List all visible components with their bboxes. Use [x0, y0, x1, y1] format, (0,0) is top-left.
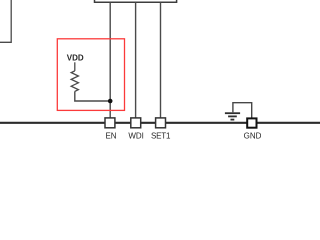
svg-text:GND: GND [244, 131, 262, 140]
wire GND hook [233, 103, 252, 119]
svg-text:SET1: SET1 [151, 131, 171, 140]
IC U1 (supervisor, cut off at top) [95, 0, 177, 2]
junction dot on EN net [108, 99, 113, 104]
pin SET1 terminal [156, 118, 166, 128]
highlight box (red callout around pull-up) [57, 39, 124, 111]
wire resistor to EN node [75, 91, 110, 101]
bottom bus wire [0, 122, 320, 124]
pin GND terminal [247, 118, 256, 127]
svg-text:WDI: WDI [128, 131, 144, 140]
wire WDI vertical [135, 2, 137, 118]
svg-text:VDD: VDD [67, 53, 84, 62]
ground symbol [225, 113, 240, 119]
wire SET1 vertical [160, 2, 162, 118]
pin WDI terminal [131, 118, 141, 128]
resistor R1 (pull-up) [71, 62, 78, 91]
IC U2 (partial box, top-left edge of frame) [0, 0, 11, 42]
wire EN vertical [109, 2, 111, 118]
svg-text:EN: EN [105, 131, 116, 140]
pin EN terminal [105, 118, 115, 128]
